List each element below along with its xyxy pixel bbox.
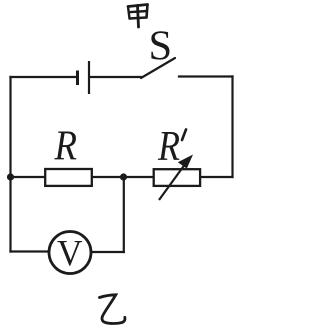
- resistor R: [45, 169, 92, 186]
- wire R to node B: [93, 176, 123, 178]
- wire R' to right vertical: [201, 176, 233, 178]
- label 乙 (yi) hand-drawn: [100, 295, 125, 324]
- wire right vertical: [231, 77, 233, 178]
- switch S: [141, 58, 175, 78]
- svg-text:V: V: [57, 234, 83, 275]
- wire switch to top-right corner: [179, 75, 233, 77]
- wire middle left (node to R): [11, 176, 45, 178]
- wire node B to R': [123, 176, 152, 178]
- battery BT1 (cell): [78, 61, 90, 94]
- node B junction dot: [120, 173, 127, 180]
- label 甲 (jia) hand-drawn: [128, 5, 148, 28]
- prime of R': [182, 130, 186, 141]
- svg-text:R: R: [54, 123, 77, 170]
- wire node B down to voltmeter: [123, 177, 125, 252]
- wire battery to switch: [90, 76, 141, 78]
- wire top-left horizontal: [11, 76, 77, 78]
- wire left vertical: [9, 77, 11, 252]
- svg-text:R: R: [157, 123, 180, 170]
- svg-text:S: S: [149, 23, 173, 70]
- wire bottom-left to voltmeter: [11, 250, 49, 252]
- wire voltmeter to right riser: [92, 251, 124, 253]
- rheostat arrow: [159, 155, 193, 201]
- node A junction dot: [7, 173, 14, 180]
- rheostat R': [154, 169, 200, 186]
- voltmeter V: [49, 232, 91, 274]
